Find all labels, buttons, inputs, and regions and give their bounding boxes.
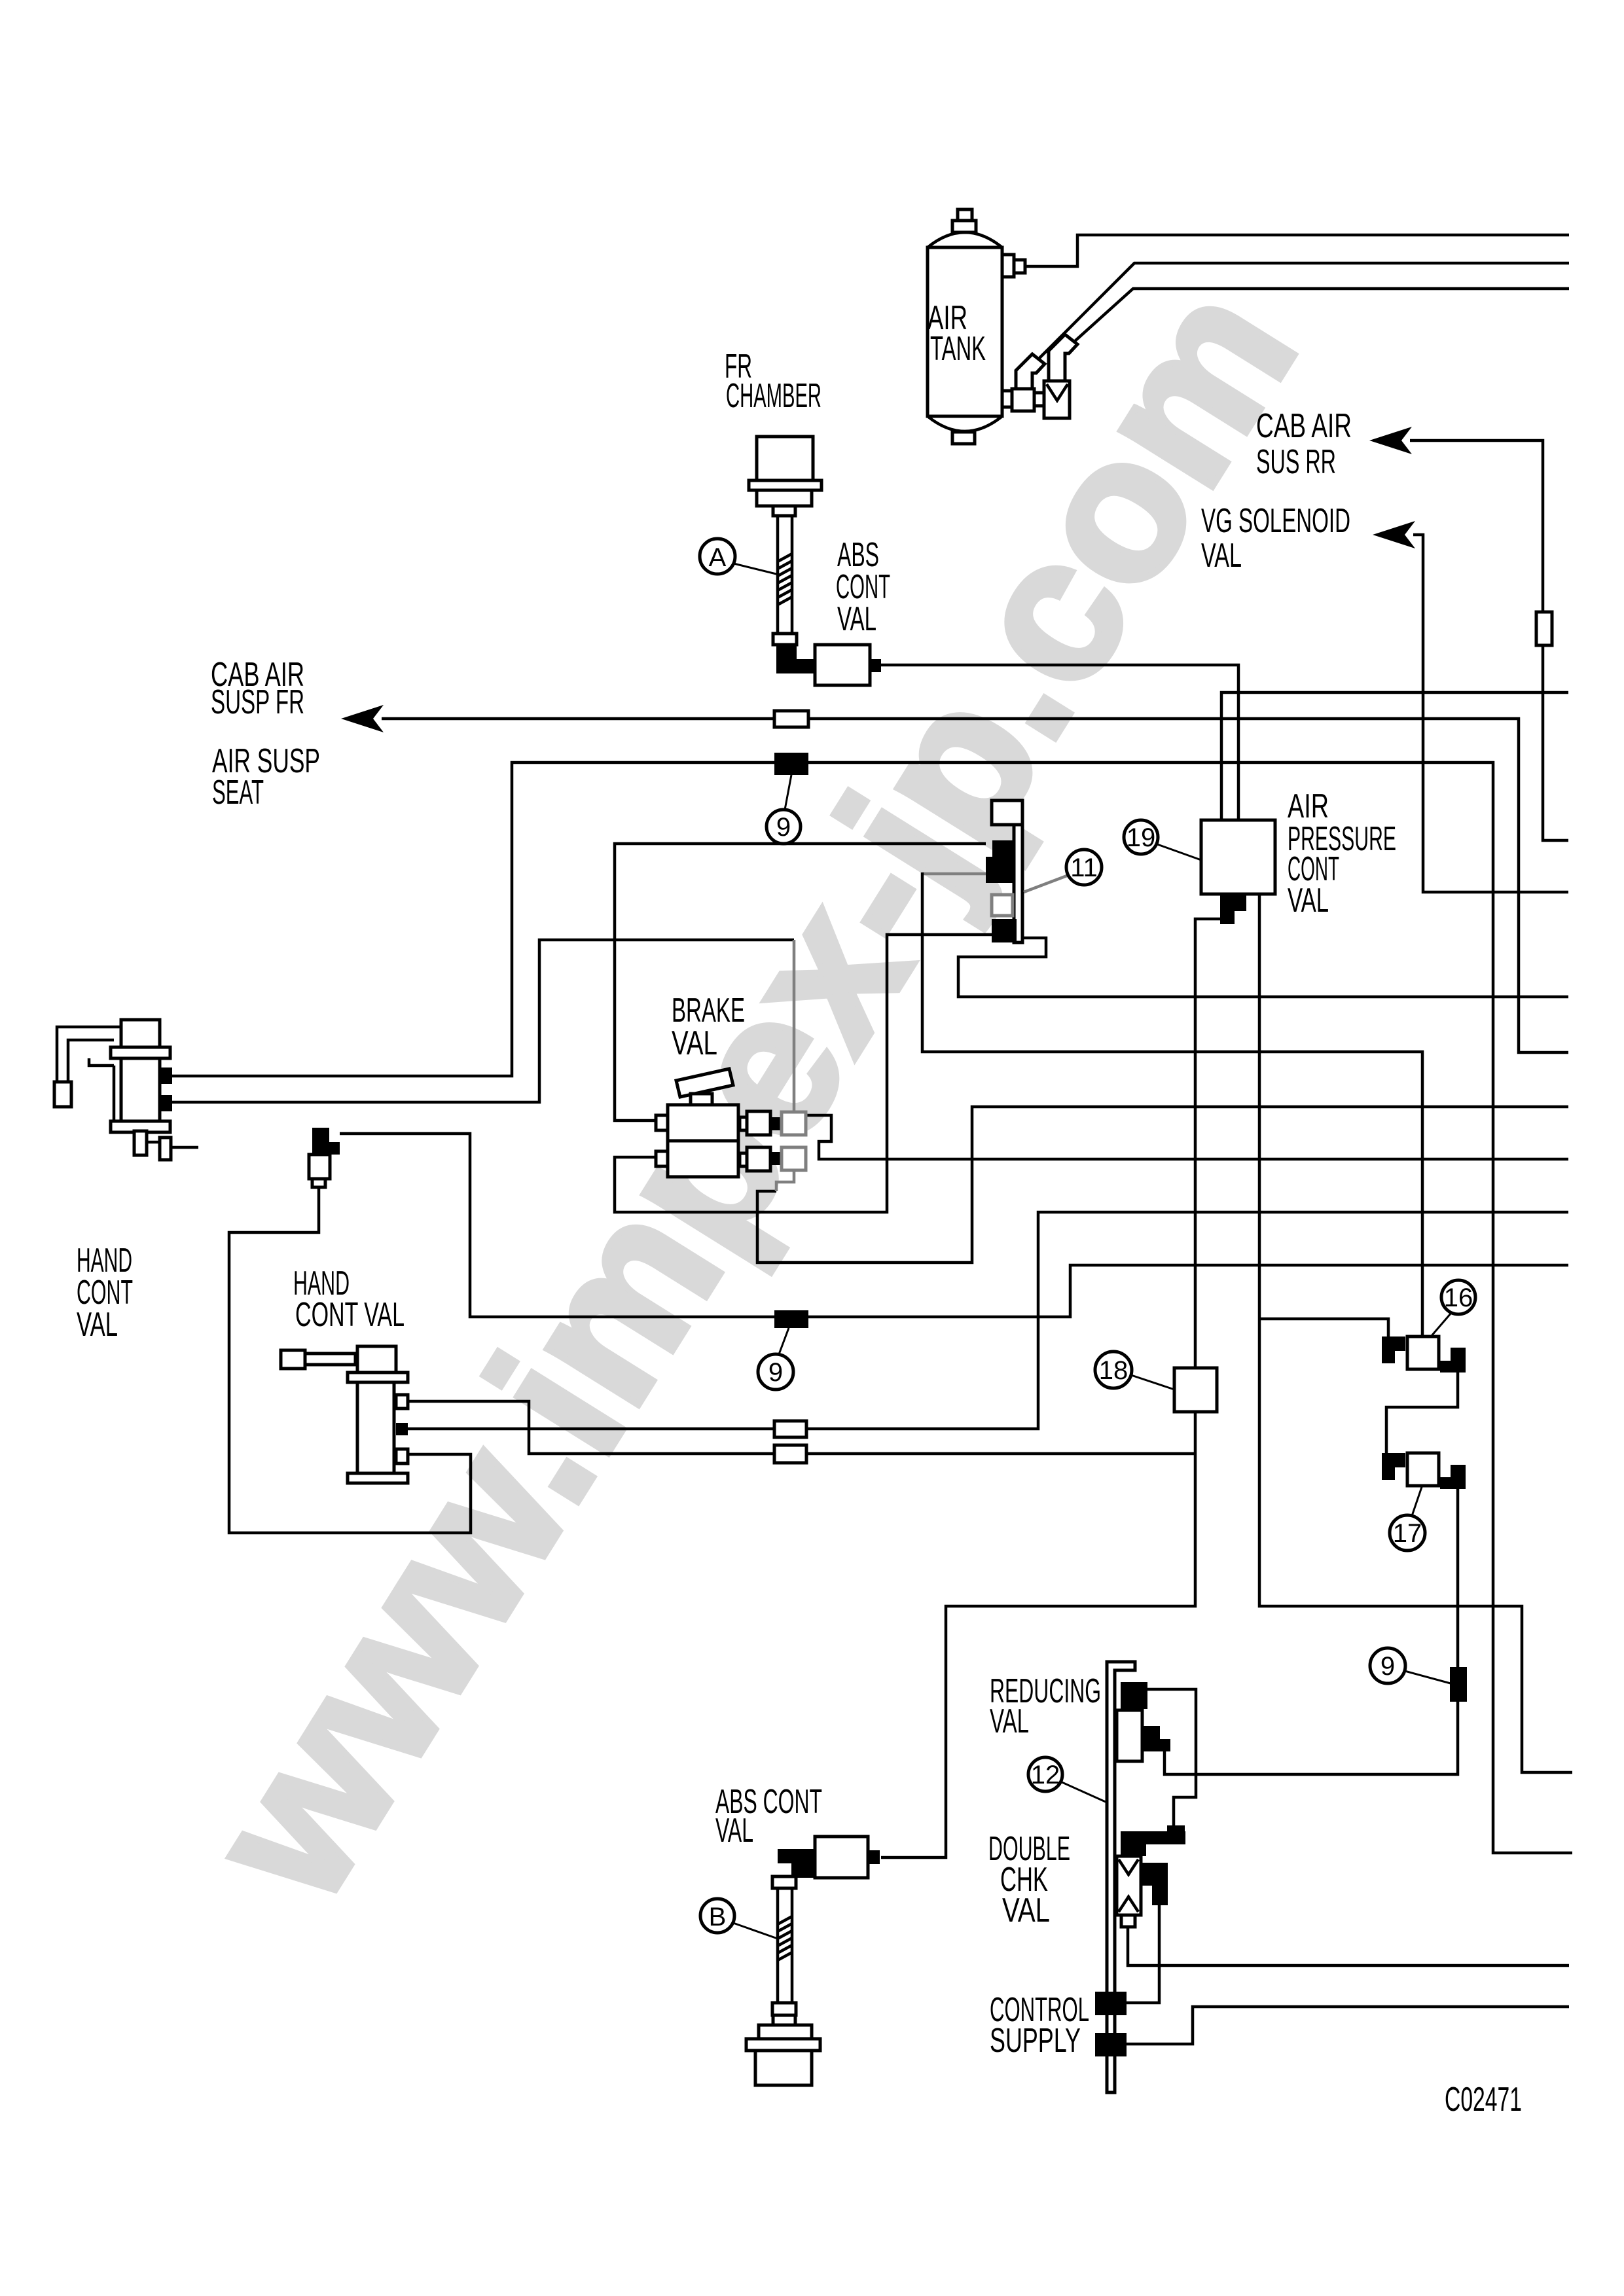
hand cont val upper ports black (159, 1067, 172, 1084)
svg-text:9: 9 (776, 813, 791, 842)
wire fitting 17 down to reducing valve elbow (1164, 1489, 1458, 1774)
arrow cab air sus rr (1369, 427, 1412, 454)
svg-text:SEAT: SEAT (212, 774, 264, 812)
wire air pressure cont val to right bus 1058 (1221, 692, 1568, 820)
svg-text:CHAMBER: CHAMBER (726, 377, 821, 415)
svg-text:16: 16 (1444, 1283, 1473, 1312)
fitting 17 right elbow (1440, 1465, 1466, 1489)
svg-text:CONT VAL: CONT VAL (295, 1296, 405, 1334)
node 17 callout (1412, 1487, 1422, 1516)
svg-text:VAL: VAL (1002, 1892, 1050, 1929)
connector 9 black on line 2012 (774, 1310, 808, 1328)
reducing valve elbow black (1143, 1726, 1170, 1751)
svg-text:TANK: TANK (930, 330, 986, 368)
wire brake valve lower left port to valve 11 port2 (615, 935, 992, 1212)
connector open on cab air susp fr line (774, 711, 808, 727)
wire air pressure cont val elbow down to ABS B (881, 919, 1220, 1857)
brake valve black stubs (770, 1117, 782, 1130)
svg-text:VG SOLENOID: VG SOLENOID (1201, 502, 1350, 540)
double check valve (1117, 1856, 1141, 1915)
wire tank elbow1 diagonal to bus 2 (1038, 263, 1569, 359)
air tank body (928, 232, 1002, 431)
svg-text:SUSP FR: SUSP FR (211, 683, 304, 721)
fitting 16 right elbow (1440, 1348, 1466, 1372)
svg-text:9: 9 (768, 1358, 783, 1387)
hand cont val lower body (357, 1382, 394, 1473)
wire fitting 16 to fitting 17 (1386, 1372, 1458, 1453)
brake valve right white squares (747, 1111, 770, 1135)
wire gray drop into brake fitting (793, 940, 796, 1111)
ABS B collar (772, 1876, 796, 1888)
quick connector fitting on port3 line (312, 1128, 340, 1155)
svg-text:VAL: VAL (1201, 537, 1242, 575)
fitting 17 box (1407, 1453, 1439, 1486)
svg-text:12: 12 (1031, 1761, 1060, 1789)
ABS cont val A nub (870, 659, 881, 672)
supply port black (1095, 2033, 1127, 2056)
wire air pressure cont val right down (1259, 894, 1572, 1772)
air pressure cont val box 19 (1201, 820, 1275, 894)
ABS cont val B box (815, 1837, 868, 1878)
connector open on cab air sus rr riser (1536, 612, 1552, 645)
fitting 16 left elbow (1382, 1336, 1405, 1363)
FR chamber collar (773, 634, 797, 645)
ABS cont val A elbow (776, 645, 815, 673)
air tank elbow nozzle 1 (1016, 354, 1045, 389)
wire brake valve lower output bus 1691 (757, 1107, 1568, 1263)
brake valve left ports (656, 1115, 668, 1130)
reducing valve mounting bar (1107, 1662, 1135, 2092)
fitting 16 box (1407, 1336, 1439, 1369)
valve 11 mounting bar (992, 800, 1022, 825)
wire hand cont val upper port1 long run (172, 762, 1572, 1853)
brake valve gray elbow lower (776, 1170, 794, 1191)
ABS cont val A box (815, 645, 870, 685)
brake valve gray squares (782, 1112, 806, 1135)
svg-text:C02471: C02471 (1445, 2081, 1522, 2119)
svg-text:17: 17 (1393, 1519, 1422, 1548)
node B callout (733, 1923, 778, 1939)
connector open rects on hand valve lines (774, 1421, 806, 1437)
svg-text:11: 11 (1070, 853, 1098, 882)
FR chamber body (757, 437, 813, 480)
reducing valve body (1117, 1710, 1142, 1761)
svg-text:SUPPLY: SUPPLY (990, 2022, 1081, 2060)
wire ABS A valve output to air pressure cont val (881, 665, 1238, 820)
hand cont val upper handle (121, 1020, 160, 1048)
wire CAB AIR SUS RR line (1410, 440, 1568, 840)
wire branch to fitting 16 (1259, 1319, 1388, 1336)
node 9 callout near FR chamber (785, 775, 791, 810)
hand cont val lower ports (396, 1395, 408, 1408)
ABS cont val B nub (868, 1850, 880, 1864)
valve 11 gray port (992, 895, 1013, 916)
node A callout (734, 564, 779, 575)
wire elbow fitting to bus 1934 (340, 1134, 1568, 1317)
air tank bottom nipple (952, 432, 975, 444)
wire valve 11 to brake valve upper left port (615, 844, 986, 1121)
wire hand cont val upper left piping (57, 1027, 121, 1082)
fitting 17 left elbow (1382, 1453, 1405, 1480)
wire valve 11 down to fitting 16 (922, 872, 1422, 1336)
node 16 callout (1431, 1313, 1451, 1336)
svg-text:CAB AIR: CAB AIR (1256, 407, 1352, 445)
node 12 callout (1060, 1782, 1106, 1802)
arrow cab air susp fr (341, 705, 384, 732)
wire supply port bus 3066 (1127, 2007, 1569, 2044)
wire tank elbow2 diagonal to bus 3 (1074, 289, 1569, 342)
svg-text:18: 18 (1099, 1356, 1128, 1385)
control port black (1095, 1992, 1127, 2015)
svg-text:VAL: VAL (990, 1702, 1029, 1740)
wire air tank upper fitting to top bus (1025, 235, 1569, 266)
connector 9 black on bus 1165 (774, 753, 808, 775)
valve 11 port elbow black (986, 840, 1014, 883)
wire valve 11 bottom fitting to bus 1523 (958, 938, 1568, 997)
hand cont val upper body (121, 1058, 160, 1122)
air pressure cont val elbow black (1220, 894, 1246, 924)
arrow vg solenoid val (1373, 521, 1415, 548)
svg-text:VAL: VAL (672, 1024, 717, 1062)
wire gray stub valve 11 port (922, 872, 986, 876)
brake valve body (668, 1105, 738, 1141)
wire VG SOLENOID VAL line (1413, 535, 1568, 892)
svg-text:A: A (709, 543, 727, 572)
wire double check valve output bus 3003 (1128, 1927, 1569, 1965)
wire hand cont val lower port2 to bus 1852 (408, 1212, 1568, 1429)
node 9 callout near hand cont val (779, 1328, 789, 1354)
FR chamber rod hatching (778, 554, 792, 605)
FR chamber rod (778, 516, 792, 634)
wire CAB AIR SUSP FR line (382, 719, 1568, 1052)
ABS B rod (778, 1888, 792, 2003)
hand cont val upper bottom outlet (134, 1131, 147, 1155)
air tank top nipple (952, 221, 976, 232)
wire hand cont val lower port3 loop (229, 1187, 471, 1533)
hand cont val lower handle (281, 1350, 305, 1369)
air tank bottom side port (1002, 391, 1012, 407)
svg-text:SUS RR: SUS RR (1256, 443, 1336, 481)
brake valve right stubs (740, 1117, 749, 1130)
wire hand cont val upper port2 to brake valve (172, 940, 794, 1102)
brake valve pedal (676, 1069, 733, 1097)
svg-text:VAL: VAL (715, 1812, 753, 1850)
svg-text:B: B (709, 1903, 727, 1931)
node 19 callout (1157, 844, 1201, 860)
reducing valve port black (1121, 1682, 1147, 1722)
node 9 callout near reducing valve (1405, 1671, 1451, 1683)
svg-text:VAL: VAL (1288, 882, 1329, 920)
double check valve right elbow black (1141, 1863, 1168, 1886)
wire reducing valve port to double check valve (1147, 1689, 1196, 1825)
node 18 callout (1131, 1375, 1174, 1390)
air tank right fitting (1002, 255, 1014, 277)
valve 11 lower port black (992, 919, 1017, 942)
connector 9 black on line to reducing valve (1450, 1667, 1467, 1702)
wire control port riser (1127, 1905, 1159, 2003)
wire brake valve upper output bus 1771 (806, 1115, 1568, 1159)
box 18 (1174, 1368, 1217, 1412)
fitting cluster between reducing and double check (1167, 1825, 1185, 1844)
wire hand cont val lower port1 (408, 1401, 1195, 1454)
hand cont val upper left box (54, 1082, 71, 1107)
svg-text:VAL: VAL (77, 1306, 118, 1344)
air tank elbow nozzle 2 (1049, 334, 1077, 381)
svg-text:19: 19 (1127, 823, 1156, 852)
air tank check valve box (1044, 381, 1070, 418)
ABS B lower chamber (772, 2003, 796, 2015)
node 11 callout (1024, 876, 1067, 892)
ABS cont val B elbow (778, 1849, 815, 1878)
svg-text:VAL: VAL (837, 600, 876, 638)
svg-text:9: 9 (1380, 1652, 1395, 1681)
